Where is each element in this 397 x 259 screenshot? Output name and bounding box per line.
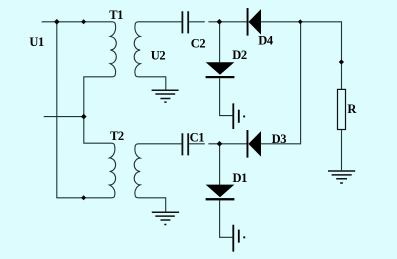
svg-text:T2: T2 <box>110 129 124 143</box>
svg-text:R: R <box>347 102 357 116</box>
svg-text:C1: C1 <box>190 131 205 145</box>
svg-text:D2: D2 <box>232 48 247 62</box>
svg-text:T1: T1 <box>109 8 123 22</box>
svg-text:U1: U1 <box>29 35 44 49</box>
svg-text:D4: D4 <box>258 33 274 47</box>
svg-text:D3: D3 <box>272 132 287 146</box>
svg-text:D1: D1 <box>233 171 248 185</box>
svg-text:U2: U2 <box>151 49 166 63</box>
svg-text:C2: C2 <box>191 36 206 50</box>
